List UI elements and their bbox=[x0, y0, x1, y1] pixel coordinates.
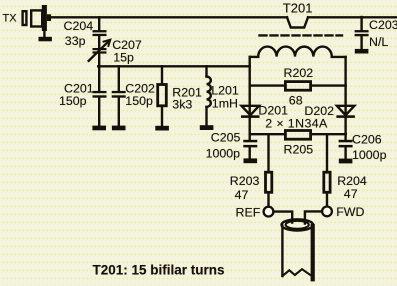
resistor R205 bbox=[250, 131, 346, 140]
label 47 (R204) bbox=[344, 187, 358, 201]
label C201 bbox=[64, 82, 94, 96]
node TX label bbox=[3, 13, 18, 25]
ground (TX connector) bbox=[39, 37, 52, 42]
ground (C202) bbox=[112, 126, 126, 131]
svg-text:T201: T201 bbox=[283, 0, 313, 15]
capacitor C207 15p (variable, series) bbox=[89, 40, 111, 67]
transformer T201 secondary winding bbox=[250, 47, 346, 57]
label C207 bbox=[112, 38, 142, 52]
svg-text:15p: 15p bbox=[113, 50, 134, 64]
label 1000p (C206) bbox=[352, 148, 387, 162]
label C203 bbox=[369, 18, 397, 32]
svg-text:REF: REF bbox=[236, 205, 261, 219]
label 15p bbox=[113, 50, 134, 64]
node REF terminal bbox=[264, 207, 274, 217]
label 33p bbox=[65, 34, 86, 48]
capacitor C202 150p (shunt) bbox=[112, 66, 126, 125]
label C205 bbox=[211, 131, 241, 145]
svg-text:R203: R203 bbox=[230, 174, 260, 188]
label REF bbox=[236, 205, 261, 219]
svg-text:33p: 33p bbox=[65, 34, 86, 48]
svg-text:N/L: N/L bbox=[369, 35, 388, 49]
wire detector left vertical bbox=[248, 57, 250, 134]
svg-text:R204: R204 bbox=[337, 174, 367, 188]
wire bus (node A) bbox=[98, 65, 250, 67]
label R201 bbox=[172, 86, 202, 100]
label R204 bbox=[337, 174, 367, 188]
label C206 bbox=[352, 133, 382, 147]
svg-text:150p: 150p bbox=[125, 94, 153, 108]
wire REF to coax bbox=[274, 212, 293, 223]
label FWD bbox=[336, 205, 364, 219]
wire top line left segment bbox=[51, 16, 287, 18]
svg-text:150p: 150p bbox=[59, 94, 87, 108]
svg-text:R202: R202 bbox=[284, 66, 314, 80]
svg-text:TX: TX bbox=[3, 13, 18, 25]
label N/L bbox=[369, 35, 388, 49]
label 68 bbox=[289, 94, 303, 108]
label 1mH bbox=[212, 97, 238, 111]
label 3k3 bbox=[172, 98, 192, 112]
svg-text:1mH: 1mH bbox=[212, 97, 238, 111]
svg-text:3k3: 3k3 bbox=[172, 98, 192, 112]
resistor R202 68 bbox=[250, 82, 346, 91]
svg-text:47: 47 bbox=[344, 187, 358, 201]
capacitor C206 1000p bbox=[339, 134, 353, 159]
label L201 bbox=[211, 84, 239, 98]
label C202 bbox=[125, 82, 155, 96]
svg-text:C206: C206 bbox=[352, 133, 382, 147]
capacitor C203 N/L bbox=[355, 17, 369, 49]
svg-text:1000p: 1000p bbox=[352, 148, 387, 162]
resistor R201 3k3 bbox=[158, 66, 167, 126]
svg-text:T201: 15 bifilar turns: T201: 15 bifilar turns bbox=[93, 263, 225, 278]
ground (R201) bbox=[155, 126, 169, 131]
label D202 bbox=[304, 104, 334, 118]
transformer T201 primary (dip in top line) bbox=[287, 17, 308, 27]
transformer T201 core (dashed) bbox=[260, 34, 343, 36]
connector J1 TX coax socket bbox=[23, 5, 51, 37]
wire detector right vertical bbox=[344, 57, 346, 134]
ground (C201) bbox=[92, 126, 106, 131]
ground (C203) bbox=[355, 49, 369, 54]
svg-text:1000p: 1000p bbox=[206, 147, 241, 161]
svg-text:C204: C204 bbox=[64, 19, 94, 33]
caption T201: 15 bifilar turns bbox=[93, 263, 225, 278]
label 150p (C202) bbox=[125, 94, 153, 108]
label R205 bbox=[284, 143, 314, 157]
resistor R204 47 bbox=[324, 134, 330, 206]
capacitor C205 1000p bbox=[243, 134, 257, 159]
ground (C205) bbox=[244, 158, 258, 163]
svg-text:C205: C205 bbox=[211, 131, 241, 145]
svg-text:L201: L201 bbox=[211, 84, 239, 98]
capacitor C204 33p (series) bbox=[93, 17, 107, 48]
ground (L201) bbox=[200, 125, 214, 130]
label R203 bbox=[230, 174, 260, 188]
diode D201 1N34A bbox=[241, 106, 260, 118]
svg-text:D201: D201 bbox=[258, 104, 288, 118]
svg-text:C203: C203 bbox=[369, 18, 397, 32]
svg-text:2 × 1N34A: 2 × 1N34A bbox=[265, 117, 328, 131]
label D201 bbox=[258, 104, 288, 118]
wire FWD to coax bbox=[305, 211, 322, 223]
node FWD terminal bbox=[322, 207, 332, 217]
wire top line right segment bbox=[308, 16, 397, 18]
label C204 bbox=[64, 19, 94, 33]
svg-text:R205: R205 bbox=[284, 143, 314, 157]
capacitor C201 150p (shunt) bbox=[93, 66, 107, 125]
ground (C206) bbox=[339, 159, 353, 164]
svg-text:47: 47 bbox=[235, 188, 249, 202]
svg-text:68: 68 bbox=[289, 94, 303, 108]
label 150p (C201) bbox=[59, 94, 87, 108]
coax line section (cylinder) bbox=[282, 219, 314, 279]
svg-text:FWD: FWD bbox=[336, 205, 364, 219]
inductor L201 1mH bbox=[207, 66, 211, 125]
diode D202 1N34A bbox=[336, 106, 355, 118]
label 2 x 1N34A bbox=[265, 117, 328, 131]
label 1000p (C205) bbox=[206, 147, 241, 161]
label 47 (R203) bbox=[235, 188, 249, 202]
resistor R203 47 bbox=[266, 134, 272, 206]
label T201 bbox=[283, 0, 313, 15]
label R202 bbox=[284, 66, 314, 80]
